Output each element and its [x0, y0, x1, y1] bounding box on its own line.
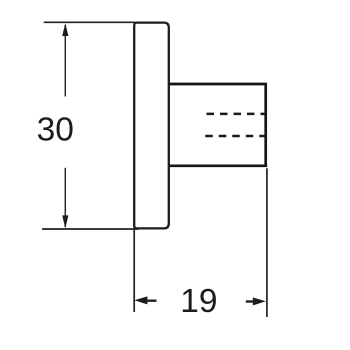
flange body outline	[134, 23, 169, 229]
boss body outline	[170, 84, 268, 166]
dimension line 19 left stub	[147, 300, 157, 302]
hidden hole line lower	[205, 135, 266, 138]
dimension line 30 lower shaft	[64, 168, 66, 227]
extension line left (19 dim)	[133, 229, 135, 312]
extension line right (19 dim)	[266, 168, 268, 317]
arrowhead right (19 dim)	[253, 297, 266, 305]
dimension line 19 right stub	[246, 300, 254, 302]
extension line top (30 dim)	[44, 21, 135, 23]
dimension line 30 upper shaft	[64, 25, 66, 97]
hidden hole line upper	[207, 113, 267, 116]
arrowhead down (30 dim)	[62, 215, 68, 228]
svg-text:19: 19	[180, 283, 217, 320]
arrowhead up (30 dim)	[62, 23, 68, 36]
svg-text:30: 30	[37, 111, 74, 148]
arrowhead left (19 dim)	[134, 296, 147, 304]
extension line bottom (30 dim)	[42, 228, 139, 230]
